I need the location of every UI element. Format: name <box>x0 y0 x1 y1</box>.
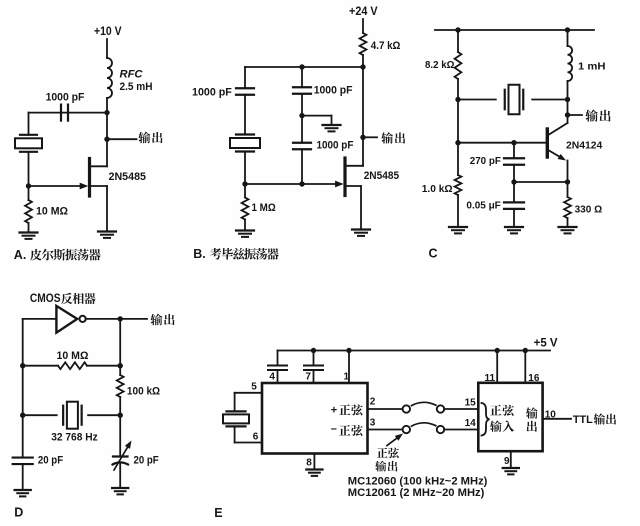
svg-text:0.05 μF: 0.05 μF <box>466 200 501 212</box>
svg-text:+24 V: +24 V <box>349 6 378 18</box>
label 1 mH (C) <box>578 61 606 73</box>
ground C left <box>449 227 467 233</box>
label RFC value <box>120 69 153 93</box>
svg-text:D: D <box>14 505 23 519</box>
label 10 Mohm (A) <box>36 206 68 218</box>
wire E: crystal top lead <box>234 393 236 412</box>
wire D: R8 to crystal node <box>119 397 121 415</box>
label +sine +正弦 <box>331 404 363 416</box>
svg-text:+: + <box>331 405 337 417</box>
svg-text:5: 5 <box>251 382 257 393</box>
junction A gate node <box>26 183 31 188</box>
wire A: crystal to gate node <box>28 152 30 186</box>
wire B: source to ground <box>360 186 362 229</box>
label pin 6 <box>253 432 259 443</box>
capacitor C4 1000 pF (B mid-lower) <box>293 143 311 150</box>
wire A: cap to crystal <box>28 113 30 135</box>
wire D: crystal left lead <box>23 414 57 416</box>
wire B: right column to output node <box>362 67 364 137</box>
wire C: C6 to ground <box>513 209 515 227</box>
ground B middle <box>323 125 341 131</box>
wire B: tap to C4 <box>301 116 303 143</box>
svg-text:8.2 kΩ: 8.2 kΩ <box>425 59 454 71</box>
ground B right <box>352 230 370 236</box>
wire D: C7 to ground <box>22 464 24 490</box>
wire B: rail to C2 <box>244 67 246 88</box>
wire E: pin 10 lead <box>543 418 571 420</box>
wire B: output node to drain <box>362 137 364 166</box>
wire D: right rail to variable cap <box>119 415 121 456</box>
junction B ground tap <box>299 113 304 118</box>
svg-text:3: 3 <box>370 418 376 429</box>
svg-text:10 MΩ: 10 MΩ <box>36 206 68 218</box>
junction D output <box>118 316 123 321</box>
resistor R8 100 kohm (D) <box>117 375 124 397</box>
label 1000 pF (B mid-upper) <box>314 85 353 97</box>
label +5 V <box>534 337 558 349</box>
node B output junction <box>360 135 365 140</box>
label output vertical 输出 <box>526 407 538 431</box>
wire A: drain up to output node <box>106 139 108 166</box>
svg-text:MC12060 (100 kHz~2 MHz): MC12060 (100 kHz~2 MHz) <box>348 475 488 487</box>
link arc row 1 <box>412 402 436 405</box>
wire A: feedback top <box>29 112 108 114</box>
junction C base rail left <box>455 140 460 145</box>
svg-text:TTL: TTL <box>573 414 593 426</box>
crystal Y1 (A) <box>15 135 42 152</box>
wire E: pin 9 lead <box>510 451 512 467</box>
junction D right rail R tap <box>118 363 123 368</box>
label 10 Mohm (D) <box>57 350 89 362</box>
wire E: +5V top rail <box>278 350 551 352</box>
label sine input 正弦输入 <box>490 405 514 432</box>
label 1000 pF (B left) <box>192 86 232 98</box>
ground A right <box>98 232 116 238</box>
wire B: C3 to ground tap node <box>301 94 303 116</box>
svg-text:2N5485: 2N5485 <box>109 171 147 183</box>
wire B: C2 to crystal <box>244 95 246 135</box>
resistor R7 10 Mohm (D) <box>23 362 121 369</box>
wire A: gate lead with arrow <box>29 183 89 190</box>
label output (A) 输出 <box>138 132 162 144</box>
svg-text:4: 4 <box>269 372 275 383</box>
label -sine -正弦 <box>331 423 363 436</box>
wire A: R1 leads <box>28 186 30 232</box>
svg-text:A.: A. <box>14 248 26 262</box>
wire B: crystal to bottom rail <box>244 152 246 185</box>
svg-text:9: 9 <box>504 456 510 467</box>
svg-text:–: – <box>331 423 337 435</box>
wire C: base rail <box>458 142 546 144</box>
wire C: crystal right lead <box>532 99 567 101</box>
wire A: RFC to drain node <box>106 98 108 139</box>
junction E rail pin16 tap <box>523 348 528 353</box>
svg-text:10: 10 <box>545 410 557 421</box>
ground E pin 8 <box>306 470 322 476</box>
wire B: output stub <box>363 136 377 138</box>
terminal circle pin2 left <box>403 405 410 412</box>
label pin 1 <box>344 372 350 383</box>
label 8.2 kohm (C) <box>425 59 454 71</box>
wire A: source to ground <box>106 186 108 231</box>
wire B: mid column top <box>301 67 303 87</box>
wire E: pin 7 lead with bypass cap <box>304 351 323 384</box>
caption C <box>429 247 438 261</box>
wire B: C4 to bottom rail <box>301 149 303 184</box>
variable capacitor C8 20 pF (D) <box>113 441 132 471</box>
svg-text:2: 2 <box>370 396 376 407</box>
svg-text:6: 6 <box>253 432 259 443</box>
caption E <box>214 506 222 520</box>
svg-text:1000 pF: 1000 pF <box>317 140 354 152</box>
label pin 3 <box>370 418 376 429</box>
svg-text:1 mH: 1 mH <box>578 61 606 73</box>
svg-text:CMOS: CMOS <box>30 291 61 305</box>
node A output junction <box>104 137 109 142</box>
label output (C) 输出 <box>585 110 610 122</box>
junction C emitter rail left <box>511 179 516 184</box>
svg-text:7: 7 <box>305 372 311 383</box>
ground D right <box>112 488 128 494</box>
wire C: emitter rail <box>514 181 568 183</box>
wire E: pin 1 lead <box>348 351 350 384</box>
label pin 4 <box>269 372 275 383</box>
capacitor C5 270 pF (C) <box>504 158 524 165</box>
svg-text:RFC: RFC <box>120 69 144 81</box>
label 4.7 kohm (B) <box>371 40 401 52</box>
wire B: R2 to top rail <box>362 55 364 67</box>
wire B: top rail <box>245 66 363 68</box>
label TTL output TTL输出 <box>573 413 616 425</box>
wire C: R5 to ground <box>457 195 459 227</box>
label MC12060 range <box>348 475 488 487</box>
svg-text:1.0 kΩ: 1.0 kΩ <box>422 183 453 195</box>
label 270 pF (C) <box>470 155 502 167</box>
wire C: base tap to C5 <box>513 143 515 159</box>
wire E: pin 16 lead <box>524 351 526 383</box>
svg-text:2.5 mH: 2.5 mH <box>120 81 153 93</box>
inductor RFC 2.5 mH <box>107 58 112 98</box>
resistor R4 8.2 kohm (C) <box>455 52 462 79</box>
wire C: rail to R4 <box>457 30 459 52</box>
label pin 7 <box>305 372 311 383</box>
wire E: crystal bottom lead <box>234 426 236 442</box>
junction B bottom rail left <box>242 181 247 186</box>
crystal Y2 (B) <box>230 135 260 152</box>
inverter U2 (CMOS) <box>56 306 85 333</box>
wire C: R4 to crystal node <box>457 79 459 100</box>
label 1.0 kohm (C) <box>422 183 453 195</box>
svg-text:E: E <box>214 506 222 520</box>
label 32 768 Hz <box>51 432 98 444</box>
label output (D) 输出 <box>150 314 174 326</box>
junction C crystal right node <box>565 97 570 102</box>
label MC12061 range <box>348 487 485 499</box>
svg-text:20 pF: 20 pF <box>38 454 63 466</box>
resistor R2 4.7 kohm (B) <box>360 33 367 55</box>
wire C: top rail <box>435 29 594 31</box>
wire C: left column R4 node to base rail <box>457 100 459 176</box>
svg-text:+10 V: +10 V <box>94 26 122 38</box>
junction C rail right <box>565 27 570 32</box>
svg-text:2N5485: 2N5485 <box>364 170 399 182</box>
wire D: right rail top <box>119 319 121 375</box>
wire D: inverter output to node <box>86 318 121 320</box>
ground C right <box>559 227 577 233</box>
label pin 2 <box>370 396 376 407</box>
IC U3 MC12061 right box <box>478 383 542 451</box>
inductor L1 1 mH (C) <box>568 46 573 81</box>
wire B: +24V to R2 <box>362 19 364 33</box>
svg-text:100 kΩ: 100 kΩ <box>127 386 160 398</box>
transistor Q3 2N4124 BJT (C) <box>547 123 567 182</box>
crystal Y5 (E) <box>223 411 249 426</box>
wire E: pin 6 lead <box>235 442 262 444</box>
transistor Q1 2N5485 JFET (A) <box>90 159 108 197</box>
wire C: C5 to emitter rail <box>513 165 515 182</box>
label CMOS inverter CMOS反相器 <box>30 291 96 305</box>
crystal Y3 (C) <box>505 85 524 115</box>
svg-text:C: C <box>429 247 438 261</box>
svg-text:B.: B. <box>193 247 206 261</box>
node C output junction <box>565 112 570 117</box>
junction A drain/cap node <box>104 110 109 115</box>
wire D: inverter input <box>23 318 57 320</box>
junction E rail cap7 tap <box>311 348 316 353</box>
label pin 9 <box>504 456 510 467</box>
label pin 5 <box>251 382 257 393</box>
wire D: variable cap to ground <box>119 463 121 488</box>
label sine output 正弦输出 <box>375 448 399 472</box>
wire E: pin 4 lead with bypass cap <box>268 351 287 384</box>
label 1000 pF (A) <box>46 91 85 103</box>
ground C middle <box>505 227 523 233</box>
resistor R5 1.0 kohm (C) <box>455 175 462 195</box>
junction E rail pin11 tap <box>495 348 500 353</box>
caption A 皮尔斯振荡器 <box>14 248 101 262</box>
svg-text:15: 15 <box>465 397 477 408</box>
ground D left <box>15 490 31 496</box>
label pin 16 <box>528 373 540 384</box>
label output (B) 输出 <box>381 132 405 143</box>
svg-text:10 MΩ: 10 MΩ <box>57 350 89 362</box>
label 2N5485 (A) <box>109 171 147 183</box>
capacitor C1 1000 pF (A) <box>61 105 68 121</box>
junction C base rail cap tap <box>511 140 516 145</box>
resistor R1 10 Mohm (A) <box>25 200 32 223</box>
capacitor C3 1000 pF (B mid-upper) <box>293 87 311 94</box>
brace sine input pins <box>482 403 490 436</box>
junction E rail pin1 tap <box>346 348 351 353</box>
ground A left <box>20 233 38 239</box>
junction D right crystal tap <box>118 413 123 418</box>
svg-text:+5 V: +5 V <box>534 337 558 349</box>
terminal circle pin14 left <box>437 426 444 433</box>
label 2N5485 (B) <box>364 170 399 182</box>
wire C: crystal left lead <box>458 99 496 101</box>
label 1000 pF (B mid-lower) <box>317 140 354 152</box>
junction C rail left <box>455 27 460 32</box>
label 330 ohm (C) <box>575 204 603 216</box>
svg-text:1000 pF: 1000 pF <box>192 86 232 98</box>
capacitor C2 1000 pF (B left) <box>236 88 254 95</box>
wire B: bottom rail with gate arrow <box>245 181 344 188</box>
junction B bottom rail mid <box>299 181 304 186</box>
label 20 pF (D right) <box>134 454 159 466</box>
junction B rail right <box>360 64 365 69</box>
ground E pin 9 <box>503 468 519 474</box>
node VDD A: +10 V supply label <box>94 26 122 38</box>
wire E: pin 15 lead <box>444 408 478 410</box>
junction C crystal left node <box>455 97 460 102</box>
link arc row 2 <box>412 423 436 426</box>
label pin 14 <box>465 418 477 429</box>
junction D left rail crystal tap <box>20 413 25 418</box>
svg-text:1: 1 <box>344 372 350 383</box>
svg-text:330 Ω: 330 Ω <box>575 204 603 216</box>
label pin 10 <box>545 410 557 421</box>
terminal circle pin3 left <box>403 426 410 433</box>
wire D: output stub <box>120 318 147 320</box>
wire C: output stub <box>568 114 583 116</box>
label 1 Mohm (B) <box>252 202 276 214</box>
wire C: R6 leads <box>567 182 569 227</box>
wire C: emitter rail to C6 <box>513 182 515 202</box>
junction C emitter rail right <box>565 179 570 184</box>
svg-text:270 pF: 270 pF <box>470 155 502 167</box>
wire B: ground stub <box>302 116 332 125</box>
svg-text:MC12061 (2 MHz~20 MHz): MC12061 (2 MHz~20 MHz) <box>348 487 485 499</box>
junction B rail mid <box>299 64 304 69</box>
terminal circle pin15 left <box>437 405 444 412</box>
capacitor C7 20 pF (D left) <box>13 458 33 465</box>
label pin 11 <box>485 373 496 384</box>
caption D <box>14 505 23 519</box>
junction D left rail R tap <box>20 363 25 368</box>
wire C: L1 to collector node <box>567 81 569 123</box>
resistor R3 1 Mohm (B) <box>242 198 249 220</box>
wire A: output stub <box>107 138 137 140</box>
label 0.05 uF (C) <box>466 200 501 212</box>
wire A: +10V to RFC <box>106 39 108 58</box>
sine output callout arrow <box>387 434 403 446</box>
svg-text:11: 11 <box>485 373 496 384</box>
ground B left <box>236 231 254 237</box>
label pin 15 <box>465 397 477 408</box>
label pin 8 <box>306 458 312 469</box>
node VDD B: +24 V supply label <box>349 6 378 18</box>
wire B: R3 leads <box>244 184 246 230</box>
capacitor C6 0.05 uF (C) <box>504 202 524 209</box>
transistor Q2 2N5485 JFET (B) <box>345 158 363 196</box>
svg-text:1000 pF: 1000 pF <box>314 85 353 97</box>
svg-text:14: 14 <box>465 418 477 429</box>
label 100 kohm (D) <box>127 386 160 398</box>
svg-text:1 MΩ: 1 MΩ <box>252 202 276 214</box>
svg-text:1000 pF: 1000 pF <box>46 91 85 103</box>
wire E: pin 11 lead <box>496 351 498 383</box>
wire C: rail to L1 <box>567 30 569 46</box>
label 20 pF (D left) <box>38 454 63 466</box>
svg-text:16: 16 <box>528 373 540 384</box>
svg-text:20 pF: 20 pF <box>134 454 159 466</box>
svg-text:32 768 Hz: 32 768 Hz <box>51 432 98 444</box>
IC U1 MC12060 main box <box>262 383 368 454</box>
wire E: pin 14 lead <box>444 429 478 431</box>
svg-text:8: 8 <box>306 458 312 469</box>
wire D: left rail <box>22 319 24 458</box>
wire E: pin 2 lead <box>368 408 404 410</box>
crystal Y4 32768 Hz (D) <box>63 402 82 429</box>
svg-text:4.7 kΩ: 4.7 kΩ <box>371 40 401 52</box>
caption B 考毕兹振荡器 <box>193 247 279 261</box>
resistor R6 330 ohm (C) <box>564 197 571 218</box>
wire D: crystal right lead <box>88 414 120 416</box>
wire E: pin 3 lead <box>368 429 404 431</box>
label 2N4124 <box>566 140 602 152</box>
wire E: pin 5 lead <box>235 392 262 394</box>
svg-text:2N4124: 2N4124 <box>566 140 602 152</box>
wire E: pin 8 lead <box>313 454 315 470</box>
